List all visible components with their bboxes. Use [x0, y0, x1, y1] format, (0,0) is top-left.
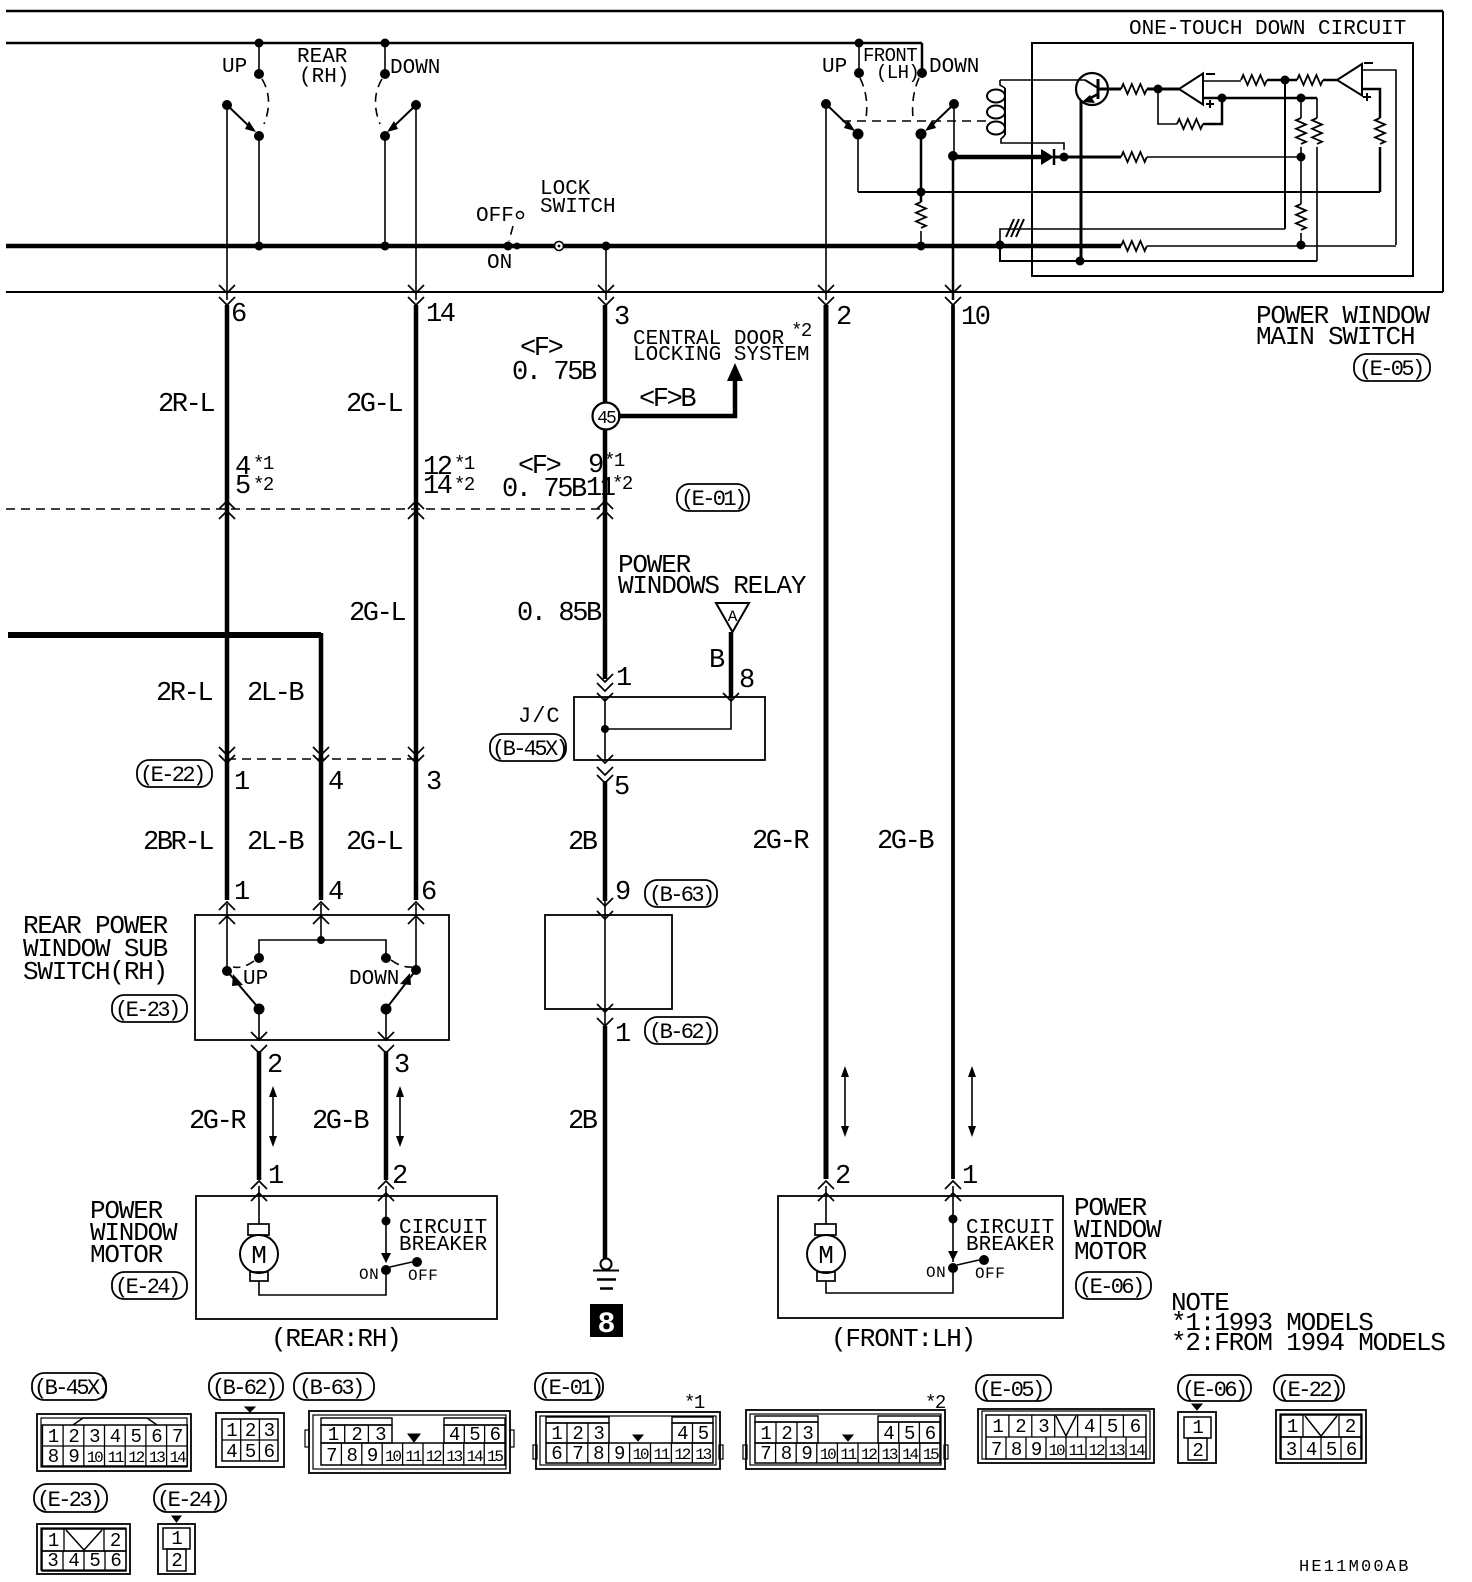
svg-text:OFF: OFF: [476, 205, 514, 228]
connector B-45X pin diagram: [37, 1414, 191, 1471]
svg-text:2G-R: 2G-R: [189, 1107, 246, 1137]
svg-text:(E-23): (E-23): [115, 998, 179, 1023]
svg-text:4: 4: [328, 878, 343, 908]
sub switch UP pole: [222, 966, 232, 976]
node front up contact junction: [917, 188, 926, 197]
svg-text:9: 9: [801, 1443, 812, 1465]
diode D1: [1041, 149, 1054, 165]
svg-text:1: 1: [551, 1423, 562, 1445]
svg-text:(FRONT:LH): (FRONT:LH): [831, 1324, 975, 1354]
svg-text:ON: ON: [926, 1264, 946, 1282]
svg-text:2G-L: 2G-L: [346, 828, 402, 858]
svg-text:2R-L: 2R-L: [158, 390, 214, 420]
direction arrow rear right: [399, 1092, 401, 1141]
wire motor bottom to breaker: [259, 1272, 386, 1295]
svg-text:DOWN: DOWN: [390, 57, 440, 80]
connector oval B-63 bottom: [294, 1373, 374, 1400]
svg-text:1: 1: [615, 1020, 630, 1050]
svg-text:2B: 2B: [568, 828, 598, 858]
wire 2L-B heavy from left: [8, 632, 321, 638]
svg-text:9: 9: [614, 1443, 625, 1465]
svg-text:1: 1: [328, 1424, 339, 1446]
wire 0.75B thick: [603, 305, 608, 679]
svg-text:2: 2: [1345, 1416, 1356, 1438]
svg-text:10: 10: [820, 1446, 836, 1464]
connector chevrons pin14: [408, 285, 424, 293]
svg-text:J/C: J/C: [518, 704, 561, 729]
svg-text:4: 4: [328, 768, 343, 798]
svg-text:OFF: OFF: [975, 1265, 1005, 1283]
main switch frame top line: [6, 10, 1443, 13]
ground bus wire y246: [6, 244, 1121, 249]
svg-text:4: 4: [1306, 1439, 1317, 1461]
svg-text:13: 13: [149, 1449, 165, 1467]
node R9 on bus: [917, 242, 926, 251]
connector E-24 pin diagram: [158, 1516, 195, 1574]
wires out of sub switch: [259, 1009, 386, 1040]
svg-text:1: 1: [48, 1426, 59, 1448]
resistor R2: [1241, 75, 1267, 85]
svg-text:0. 85B: 0. 85B: [517, 599, 602, 629]
chevrons above sub switch box: [219, 902, 235, 910]
svg-text:1: 1: [962, 1162, 977, 1192]
chevrons below B-62: [597, 1018, 613, 1026]
chevron at box top: [597, 911, 613, 919]
svg-text:(B-45X): (B-45X): [492, 737, 566, 762]
connector oval B-45X: [490, 734, 566, 761]
wire R2R3 node down: [1284, 80, 1286, 229]
node J/C junction: [601, 725, 609, 733]
svg-text:*1: *1: [684, 1392, 705, 1414]
front UP switch pole: [821, 99, 831, 109]
svg-text:3: 3: [264, 1420, 275, 1442]
svg-text:2: 2: [68, 1426, 79, 1448]
svg-text:*1: *1: [253, 453, 274, 475]
svg-text:UP: UP: [243, 968, 268, 991]
wire thin into box: [604, 901, 606, 915]
svg-text:(E-22): (E-22): [1277, 1378, 1341, 1403]
wire opamp A minus input: [1203, 80, 1241, 82]
svg-text:8: 8: [781, 1443, 792, 1465]
wires into rear motor box: [259, 1186, 386, 1262]
svg-text:MOTOR: MOTOR: [1074, 1237, 1147, 1267]
resistor R8 vertical: [1375, 118, 1385, 144]
svg-text:SWITCH: SWITCH: [540, 196, 616, 219]
svg-text:6: 6: [551, 1443, 562, 1465]
svg-text:6: 6: [264, 1441, 275, 1463]
svg-text:14: 14: [170, 1449, 186, 1467]
resistor R4 feedback: [1177, 119, 1203, 129]
svg-text:4: 4: [110, 1426, 121, 1448]
connector B-63 pin diagram: [305, 1411, 514, 1473]
svg-text:11: 11: [107, 1449, 123, 1467]
chevrons above rear motor box: [251, 1181, 267, 1189]
coil bottom lead wire: [1001, 135, 1064, 150]
svg-text:2: 2: [835, 1162, 850, 1192]
svg-text:14: 14: [467, 1448, 483, 1466]
svg-text:3: 3: [375, 1424, 386, 1446]
connector E-06 pin diagram: [1178, 1404, 1216, 1463]
svg-text:7: 7: [760, 1443, 770, 1465]
svg-text:ONE-TOUCH DOWN CIRCUIT: ONE-TOUCH DOWN CIRCUIT: [1129, 18, 1406, 41]
svg-text:9: 9: [68, 1446, 79, 1468]
resistor R5 vertical: [1300, 98, 1302, 118]
wire (F)B to central door locking: [618, 380, 735, 416]
svg-text:5: 5: [1326, 1439, 1337, 1461]
svg-text:1: 1: [48, 1530, 59, 1552]
wire lock to pin3: [605, 246, 607, 300]
rear DOWN switch pole: [411, 100, 421, 110]
op-amp U1: [1179, 74, 1203, 105]
mechanical linkage dashed wire to coil: [842, 120, 988, 122]
svg-text:2G-L: 2G-L: [346, 390, 402, 420]
connector oval B-62: [645, 1017, 717, 1044]
svg-text:(E-24): (E-24): [115, 1275, 179, 1300]
connector oval E-24 bottom: [154, 1484, 226, 1512]
sub switch UP dashed arc: [233, 961, 254, 967]
chevron at J/C top edge x605: [597, 693, 613, 701]
svg-text:3: 3: [614, 303, 629, 333]
circuit breaker rear: [382, 1217, 391, 1226]
chevrons at E-22 line: [219, 747, 235, 755]
node R5 top: [1297, 94, 1306, 103]
wire diode to R5 chain: [1054, 156, 1121, 159]
node bus chassis tap: [996, 241, 1005, 250]
rear switch UP stub: [255, 39, 264, 48]
sub switch DOWN pole: [411, 965, 421, 975]
svg-text:2: 2: [171, 1550, 182, 1572]
svg-text:9: 9: [1031, 1439, 1042, 1461]
svg-text:10: 10: [633, 1446, 649, 1464]
node front down to one-touch: [948, 151, 958, 161]
svg-text:MOTOR: MOTOR: [90, 1240, 163, 1270]
node emitter junction: [1076, 257, 1085, 266]
svg-text:2: 2: [351, 1424, 362, 1446]
svg-text:0. 75B: 0. 75B: [502, 475, 587, 505]
connector oval E-01 bottom: [535, 1373, 603, 1400]
wire inside box: [604, 915, 606, 1009]
motor M front: [815, 1224, 836, 1235]
svg-text:2: 2: [110, 1530, 121, 1552]
connector oval E-23: [112, 995, 187, 1022]
svg-text:45: 45: [597, 409, 616, 429]
svg-text:*2: *2: [612, 473, 633, 495]
wire 2B upper thick: [603, 781, 608, 901]
svg-text:1: 1: [234, 878, 249, 908]
connector oval E-22: [137, 760, 212, 787]
svg-text:1: 1: [171, 1528, 182, 1550]
svg-text:7: 7: [326, 1445, 336, 1467]
wire UP contact net y192: [858, 191, 1380, 193]
wire front down contact drop thick: [920, 134, 923, 202]
resistor R9 below front switch: [916, 202, 926, 228]
svg-text:(E-05): (E-05): [979, 1378, 1043, 1403]
connector E-22 pin diagram: [1276, 1410, 1366, 1463]
svg-text:0. 75B: 0. 75B: [512, 358, 597, 388]
svg-text:SWITCH(RH): SWITCH(RH): [23, 957, 167, 987]
resistor R3: [1297, 75, 1323, 85]
svg-text:2G-B: 2G-B: [312, 1107, 369, 1137]
wire rear pin6 column thin: [226, 105, 228, 300]
svg-text:8: 8: [593, 1443, 604, 1465]
svg-text:UP: UP: [222, 56, 247, 79]
svg-text:ON: ON: [487, 252, 512, 275]
transistor Q1 base wire: [1000, 79, 1085, 81]
svg-text:6: 6: [1130, 1416, 1141, 1438]
svg-text:3: 3: [47, 1550, 58, 1572]
resistor R7 vertical: [1296, 204, 1306, 230]
connector oval E-24: [112, 1272, 187, 1299]
connector chevrons pin10: [945, 285, 961, 293]
svg-text:13: 13: [881, 1446, 897, 1464]
one-touch down circuit box: [1032, 43, 1413, 276]
wire rear up moving contact to bus: [258, 136, 260, 246]
connector oval B-63: [645, 880, 717, 907]
front motor box E-06: [778, 1196, 1063, 1318]
svg-text:2G-L: 2G-L: [349, 599, 405, 629]
svg-text:11: 11: [840, 1446, 856, 1464]
front switch top jog wire: [921, 43, 924, 73]
wires into sub switch: [227, 904, 416, 971]
svg-text:8: 8: [739, 666, 754, 696]
wire front pin2 column thin: [825, 104, 827, 300]
wires into front motor box: [826, 1186, 953, 1262]
chevron at J/C bottom edge: [597, 755, 613, 763]
svg-text:9: 9: [615, 878, 630, 908]
resistor R6 vertical: [1316, 98, 1318, 118]
svg-text:6: 6: [925, 1423, 936, 1445]
svg-text:2: 2: [1015, 1416, 1026, 1438]
svg-text:2B: 2B: [568, 1107, 598, 1137]
svg-text:DOWN: DOWN: [349, 968, 399, 991]
chevrons at E-01 line: [219, 501, 235, 509]
svg-text:11: 11: [586, 474, 615, 504]
svg-text:(E-23): (E-23): [37, 1488, 101, 1513]
op-amp U2: [1337, 64, 1362, 96]
svg-text:5: 5: [698, 1423, 709, 1445]
junction box J/C B-45X: [574, 697, 765, 760]
wire y261 net: [1000, 245, 1317, 261]
supply bus wire y43: [6, 42, 922, 45]
svg-text:14: 14: [1129, 1442, 1145, 1460]
svg-text:1: 1: [760, 1423, 771, 1445]
connector oval B-62 bottom: [209, 1373, 283, 1400]
svg-text:*1: *1: [454, 453, 475, 475]
wire front motor bottom to breaker: [826, 1272, 953, 1293]
wire 2B lower thick: [603, 1026, 608, 1258]
front DOWN switch pole: [949, 99, 959, 109]
svg-text:5: 5: [904, 1423, 915, 1445]
connector oval E-23 bottom: [34, 1484, 107, 1512]
lock switch: [504, 242, 513, 251]
feedback loop wire: [1158, 92, 1177, 124]
svg-text:ON: ON: [359, 1266, 379, 1284]
svg-text:2: 2: [245, 1420, 256, 1442]
svg-text:(E-06): (E-06): [1079, 1275, 1143, 1300]
svg-text:12: 12: [426, 1448, 442, 1466]
svg-text:*2:FROM 1994 MODELS: *2:FROM 1994 MODELS: [1171, 1328, 1445, 1358]
motor M rear: [248, 1224, 269, 1235]
wire opamp B plus loop: [1362, 89, 1380, 118]
svg-text:3: 3: [89, 1426, 100, 1448]
node lock switch output: [602, 242, 611, 251]
wire 2G-B front thick: [951, 305, 955, 1179]
svg-text:7: 7: [172, 1426, 182, 1448]
svg-text:1: 1: [268, 1162, 283, 1192]
svg-text:15: 15: [487, 1448, 503, 1466]
chevron above B-63 box: [597, 898, 613, 906]
rear sub switch box E-23: [195, 915, 449, 1040]
svg-text:11: 11: [1069, 1442, 1085, 1460]
direction arrow rear left: [272, 1092, 274, 1141]
main switch frame bottom line: [6, 291, 1443, 293]
svg-text:2L-B: 2L-B: [247, 679, 304, 709]
connector oval E-22 bottom: [1274, 1375, 1344, 1401]
svg-text:(B-63): (B-63): [299, 1376, 363, 1401]
chevron at J/C top edge x731: [723, 693, 739, 701]
connector oval E-05: [1354, 354, 1430, 381]
svg-text:(B-45X): (B-45X): [34, 1376, 108, 1401]
wire front pin10 column: [953, 104, 955, 156]
svg-text:14: 14: [423, 472, 452, 502]
svg-text:12: 12: [1089, 1442, 1105, 1460]
svg-text:1: 1: [616, 664, 631, 694]
svg-text:8: 8: [48, 1446, 59, 1468]
wire front up contact drop: [857, 134, 859, 192]
ground symbol G8: [601, 1259, 612, 1270]
svg-text:4: 4: [226, 1441, 237, 1463]
front UP dashed linkage arc: [860, 78, 867, 118]
svg-text:BREAKER: BREAKER: [966, 1234, 1055, 1257]
wire 2G-R front thick: [824, 305, 829, 1179]
svg-text:3: 3: [593, 1423, 604, 1445]
node plus input: [1218, 94, 1227, 103]
svg-text:5: 5: [89, 1550, 100, 1572]
front switch UP stub: [855, 39, 864, 48]
svg-text:5: 5: [130, 1426, 141, 1448]
svg-text:(E-05): (E-05): [1359, 357, 1423, 382]
svg-text:5: 5: [614, 773, 629, 803]
svg-text:3: 3: [1038, 1416, 1049, 1438]
svg-text:(RH): (RH): [299, 66, 349, 89]
svg-text:6: 6: [231, 300, 246, 330]
node opamp A output: [1154, 85, 1163, 94]
svg-text:5: 5: [245, 1441, 256, 1463]
svg-text:14: 14: [426, 300, 455, 330]
chassis stub wire y229: [1000, 229, 1285, 245]
svg-text:*2: *2: [253, 474, 274, 496]
svg-text:M: M: [251, 1241, 267, 1271]
svg-text:2: 2: [572, 1423, 583, 1445]
svg-text:B: B: [709, 646, 725, 676]
node 45 circle: [593, 403, 620, 430]
svg-text:7: 7: [572, 1443, 582, 1465]
svg-text:MAIN SWITCH: MAIN SWITCH: [1256, 322, 1414, 352]
svg-text:BREAKER: BREAKER: [399, 1234, 488, 1257]
wire relay B: [729, 632, 734, 698]
svg-text:(E-24): (E-24): [157, 1488, 221, 1513]
wire rear pin14 column thin: [415, 105, 417, 300]
chevrons above front motor box: [818, 1181, 834, 1189]
connector oval E-01: [677, 484, 749, 511]
svg-text:8: 8: [346, 1445, 357, 1467]
svg-text:2G-R: 2G-R: [752, 827, 809, 857]
svg-text:13: 13: [446, 1448, 462, 1466]
pass-through box: [545, 915, 672, 1009]
transistor Q1: [1076, 73, 1108, 105]
wire collector to opamp A: [1147, 88, 1179, 91]
wire opamp A plus input net: [1203, 97, 1317, 100]
chevrons above J/C: [597, 674, 613, 682]
svg-text:(E-01): (E-01): [538, 1376, 602, 1401]
svg-text:M: M: [818, 1241, 834, 1271]
svg-text:10: 10: [87, 1449, 103, 1467]
svg-text:2: 2: [836, 303, 851, 333]
diode D1 wire: [953, 155, 1041, 160]
svg-text:1: 1: [234, 768, 249, 798]
svg-text:4: 4: [883, 1423, 894, 1445]
svg-text:1: 1: [992, 1416, 1003, 1438]
connector E-23 pin diagram: [37, 1524, 130, 1574]
svg-text:WINDOWS RELAY: WINDOWS RELAY: [618, 571, 807, 601]
svg-text:5: 5: [1107, 1416, 1118, 1438]
wire 2G-L thick: [414, 305, 419, 900]
rear UP dashed linkage arc: [262, 79, 269, 124]
svg-text:3: 3: [802, 1423, 813, 1445]
svg-text:3: 3: [426, 768, 441, 798]
chevrons at sub switch bottom: [251, 1032, 267, 1040]
svg-text:*1: *1: [604, 450, 625, 472]
wire 2G-R rear thick: [257, 1051, 262, 1180]
svg-text:2: 2: [392, 1162, 407, 1192]
svg-text:10: 10: [961, 303, 990, 333]
coil L1: [1000, 80, 1005, 88]
wire R2 to node: [1267, 79, 1297, 82]
svg-text:5: 5: [469, 1424, 480, 1446]
rear switch DOWN stub: [381, 39, 390, 48]
svg-text:3: 3: [1286, 1439, 1297, 1461]
ground bus thin segment: [1147, 245, 1396, 247]
svg-text:12: 12: [861, 1446, 877, 1464]
svg-text:LOCKING SYSTEM: LOCKING SYSTEM: [633, 344, 809, 367]
svg-text:2BR-L: 2BR-L: [143, 828, 213, 858]
lock switch OFF dot: [517, 212, 524, 219]
svg-text:<F>B: <F>B: [639, 385, 696, 415]
connector B-62 pin diagram: [216, 1407, 284, 1467]
node diode output: [1060, 153, 1069, 162]
svg-text:DOWN: DOWN: [929, 56, 979, 79]
svg-text:2G-B: 2G-B: [877, 827, 934, 857]
wire 2R-L thick: [225, 305, 230, 900]
svg-text:(LH): (LH): [876, 62, 919, 84]
connector chevrons pin2: [818, 285, 834, 293]
node R5/R7 junction y157: [1297, 153, 1306, 162]
svg-text:14: 14: [902, 1446, 918, 1464]
svg-text:4: 4: [449, 1424, 460, 1446]
connector oval E-06: [1076, 1272, 1151, 1299]
rear DOWN dashed linkage arc: [375, 79, 382, 124]
svg-text:15: 15: [923, 1446, 939, 1464]
transistor emitter wire: [1080, 100, 1083, 261]
circuit breaker front: [949, 1215, 958, 1224]
connector oval E-05 bottom: [976, 1375, 1051, 1401]
svg-text:OFF: OFF: [408, 1267, 438, 1285]
svg-text:13: 13: [1109, 1442, 1125, 1460]
svg-text:11: 11: [405, 1448, 421, 1466]
svg-text:2: 2: [267, 1051, 282, 1081]
connector E-05 pin diagram: [978, 1409, 1154, 1463]
svg-text:8: 8: [1011, 1439, 1022, 1461]
